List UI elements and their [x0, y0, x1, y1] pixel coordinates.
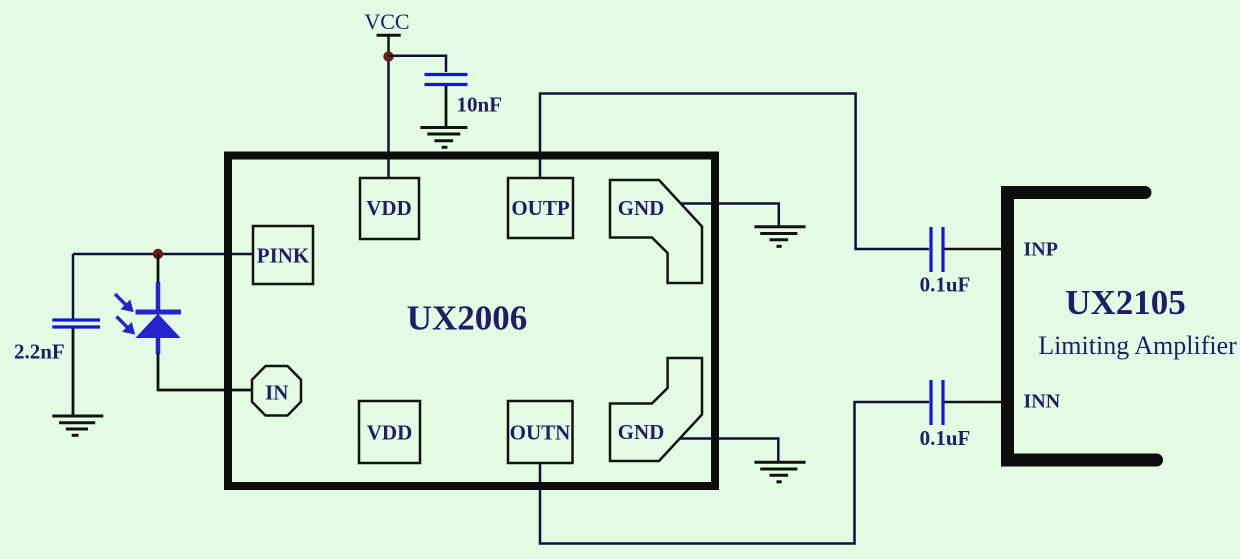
wire cap to INP [945, 248, 1003, 251]
svg-text:2.2nF: 2.2nF [14, 340, 65, 364]
wire left cap net to PINK [73, 253, 253, 256]
pin GND top [610, 180, 702, 283]
svg-text:0.1uF: 0.1uF [920, 426, 971, 450]
ground at top GND pin [754, 227, 805, 247]
svg-text:VDD: VDD [367, 421, 413, 445]
wire photodiode cathode to IN [158, 353, 253, 390]
junction dot left net [153, 249, 163, 259]
ground below 10nF [420, 128, 467, 148]
light arrow 2 [117, 317, 129, 329]
IC body UX2006 [228, 156, 715, 487]
wire GND bottom pin to ground [680, 439, 778, 462]
svg-text:OUTN: OUTN [510, 421, 571, 445]
IC body UX2105 bracket [1008, 193, 1157, 461]
wire VCC junction to 10nF cap [389, 56, 447, 72]
wire GND top pin to ground [680, 204, 779, 227]
wire VCC bar to junction [387, 35, 390, 56]
junction dot at VCC [383, 51, 393, 61]
svg-text:INN: INN [1024, 391, 1061, 413]
svg-text:UX2006: UX2006 [407, 299, 528, 338]
pin OUTP [508, 178, 573, 238]
wire junction to photodiode anode [157, 254, 160, 284]
svg-text:VCC: VCC [364, 9, 409, 34]
svg-text:IN: IN [265, 381, 288, 405]
svg-text:GND: GND [618, 196, 665, 220]
svg-text:OUTP: OUTP [511, 196, 570, 220]
svg-text:VDD: VDD [366, 196, 412, 220]
wire 2.2nF cap to ground [72, 329, 75, 416]
pin VDD top [360, 178, 419, 239]
svg-text:UX2105: UX2105 [1065, 283, 1186, 322]
pin IN octagon [252, 366, 301, 416]
svg-text:PINK: PINK [257, 244, 310, 268]
ground at bottom GND pin [754, 462, 805, 482]
pin OUTN [508, 401, 573, 463]
capacitor C INP 0.1uF plates [931, 227, 943, 272]
wire VCC junction down to VDD pin [387, 57, 390, 179]
svg-text:Limiting Amplifier: Limiting Amplifier [1038, 331, 1237, 360]
svg-text:INP: INP [1024, 239, 1058, 261]
power symbol VCC bar [377, 34, 401, 37]
pin GND bottom [610, 358, 702, 461]
wire OUTN to INN coupling cap [540, 402, 929, 544]
pin PINK [253, 226, 313, 284]
light arrow 1 [115, 294, 127, 306]
svg-text:0.1uF: 0.1uF [920, 273, 971, 297]
svg-text:GND: GND [618, 420, 665, 444]
wire cap to INN [945, 401, 1003, 404]
pin VDD bottom [359, 401, 420, 463]
wire 10nF cap to ground [445, 86, 448, 127]
capacitor C INN 0.1uF plates [931, 380, 943, 425]
capacitor 2.2nF plates [52, 320, 100, 327]
ground below 2.2nF [52, 416, 103, 435]
photodiode D1 [115, 282, 181, 354]
capacitor 10nF plates [425, 75, 468, 85]
svg-text:10nF: 10nF [457, 93, 503, 117]
wire down to 2.2nF cap [72, 254, 75, 319]
wire OUTP to INP coupling cap [540, 94, 929, 250]
